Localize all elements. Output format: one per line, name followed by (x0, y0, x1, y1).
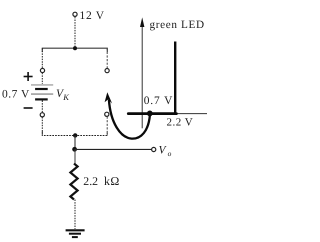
label Vo (159, 145, 172, 158)
wire bottom rail (42, 132, 107, 136)
wire right branch lower (106, 117, 108, 136)
battery VK plate short bottom (35, 98, 48, 100)
wire battery bottom to terminal (41, 101, 43, 113)
curved annotation arrow from operating point to diode position (105, 92, 150, 138)
node 12 V supply terminal (73, 10, 105, 22)
wire terminal to battery top (41, 73, 43, 84)
svg-text:0.7 V: 0.7 V (2, 89, 30, 101)
wire resistor to ground (74, 200, 76, 230)
junction bottom rail node (73, 133, 77, 137)
node diode cathode terminal (105, 112, 109, 116)
battery VK plate short upper (35, 88, 48, 90)
plus sign polarity (24, 72, 33, 81)
svg-text:K: K (62, 92, 70, 102)
svg-text:12 V: 12 V (80, 10, 105, 22)
minus sign polarity (24, 107, 33, 109)
svg-text:kΩ: kΩ (104, 174, 120, 188)
LED characteristic horizontal segment (128, 112, 176, 115)
ground (66, 230, 85, 237)
battery VK plate long top (31, 84, 53, 86)
operating point dot 0.7V (147, 111, 153, 117)
svg-text:2.2 V: 2.2 V (167, 116, 194, 128)
label VK (56, 88, 70, 102)
wire right branch upper (106, 48, 108, 68)
wire top rail (42, 48, 107, 52)
node left branch upper terminal (40, 68, 44, 72)
svg-text:V: V (159, 145, 168, 157)
graph x-axis (128, 113, 207, 115)
svg-text:0.7 V: 0.7 V (144, 95, 174, 107)
resistor 2.2 kOhm zigzag (70, 164, 77, 200)
svg-text:2.2: 2.2 (83, 174, 98, 188)
junction Vo node (72, 147, 77, 152)
battery VK plate long lower (31, 93, 53, 95)
wire left branch upper (41, 48, 43, 68)
node Vo terminal (152, 147, 156, 151)
wire 12V terminal to top rail (74, 17, 76, 48)
wire to Vo terminal (75, 148, 152, 150)
graph y-axis green LED current (140, 17, 144, 128)
junction top rail node (73, 46, 77, 50)
wire bottom rail to Vo junction (74, 136, 76, 150)
svg-text:green LED: green LED (150, 19, 205, 31)
label 2.2 kOhm value (83, 174, 119, 188)
wire left branch lower (41, 117, 43, 136)
node left branch lower terminal (40, 113, 44, 117)
wire Vo junction to resistor (74, 149, 76, 164)
svg-text:o: o (168, 149, 172, 158)
node diode anode terminal (105, 69, 109, 73)
LED characteristic vertical segment at 2.2V (174, 42, 176, 115)
